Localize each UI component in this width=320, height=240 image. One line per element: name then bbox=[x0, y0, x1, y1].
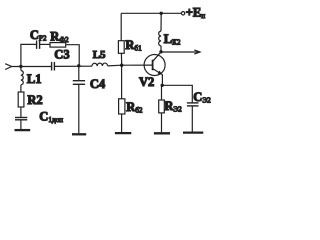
wire node2 down to C4 bbox=[78, 66, 80, 80]
junction node J2 bbox=[77, 64, 80, 67]
junction node J1 bbox=[19, 65, 22, 68]
svg-text:L1: L1 bbox=[27, 72, 42, 86]
wire C1dop to ground bbox=[20, 120, 22, 130]
inductor L1 bbox=[20, 66, 22, 70]
resistor Rb1 bbox=[118, 41, 124, 54]
top branch wire left riser bbox=[21, 44, 36, 66]
capacitor C1dop bbox=[15, 118, 27, 120]
wire Re2 to ground bbox=[161, 113, 163, 132]
svg-text:C3: C3 bbox=[54, 47, 69, 61]
wire C4 to ground bbox=[78, 85, 80, 134]
junction node rail bbox=[160, 12, 163, 15]
ground under C4 bbox=[72, 133, 86, 135]
supply terminal +En bbox=[181, 12, 184, 15]
junction node J3 bbox=[120, 63, 123, 66]
junction node collector bbox=[159, 50, 162, 53]
wire C3 to L5 bbox=[55, 65, 92, 67]
wire emitter node to Re2 bbox=[161, 85, 163, 100]
ground under Re2 bbox=[154, 132, 170, 134]
collector wire up bbox=[160, 46, 162, 52]
wire base node to transistor base bbox=[122, 64, 152, 66]
resistor R2 bbox=[18, 92, 24, 107]
capacitor Ce2 bbox=[187, 103, 199, 106]
top branch wire right riser bbox=[66, 45, 80, 66]
svg-text:C4: C4 bbox=[90, 77, 106, 91]
inductor L5 bbox=[92, 63, 108, 66]
emitter wire down bbox=[161, 75, 163, 86]
svg-text:R2: R2 bbox=[27, 93, 42, 107]
wire Rb1 to base node bbox=[120, 53, 122, 65]
wire base node down to Rb2 bbox=[121, 65, 123, 99]
wire R2 to C1dop bbox=[20, 107, 22, 117]
output arrow bbox=[161, 51, 200, 53]
wire rail to Rb1 bbox=[120, 13, 122, 40]
svg-text:V2: V2 bbox=[139, 75, 154, 89]
ground under Ce2 bbox=[183, 131, 203, 133]
capacitor Cp2 bbox=[37, 41, 40, 49]
input terminal arrow bbox=[5, 64, 11, 70]
junction node emitter bbox=[161, 84, 164, 87]
wire L5 to base node bbox=[108, 64, 122, 67]
ground under C1dop bbox=[15, 129, 31, 131]
capacitor C3 bbox=[52, 62, 55, 71]
wire Lk2 to rail bbox=[160, 13, 162, 31]
wire Cp2 to Rf2 bbox=[40, 43, 50, 45]
wire Ce2 to ground bbox=[191, 106, 193, 132]
wire L1 to R2 bbox=[20, 85, 22, 92]
wire input to C3 bbox=[12, 66, 51, 68]
transistor V2 bbox=[144, 55, 165, 76]
capacitor C4 bbox=[73, 81, 85, 85]
resistor Rf2 bbox=[50, 43, 66, 48]
wire Rb2 to ground bbox=[121, 114, 123, 132]
inductor Lk2 bbox=[159, 31, 161, 46]
top rail bbox=[121, 12, 181, 14]
wire emitter node to Ce2 bbox=[162, 85, 192, 102]
resistor Rb2 bbox=[119, 99, 125, 114]
resistor Re2 bbox=[159, 100, 165, 113]
ground under Rb2 bbox=[115, 132, 131, 134]
svg-text:L5: L5 bbox=[93, 49, 106, 61]
